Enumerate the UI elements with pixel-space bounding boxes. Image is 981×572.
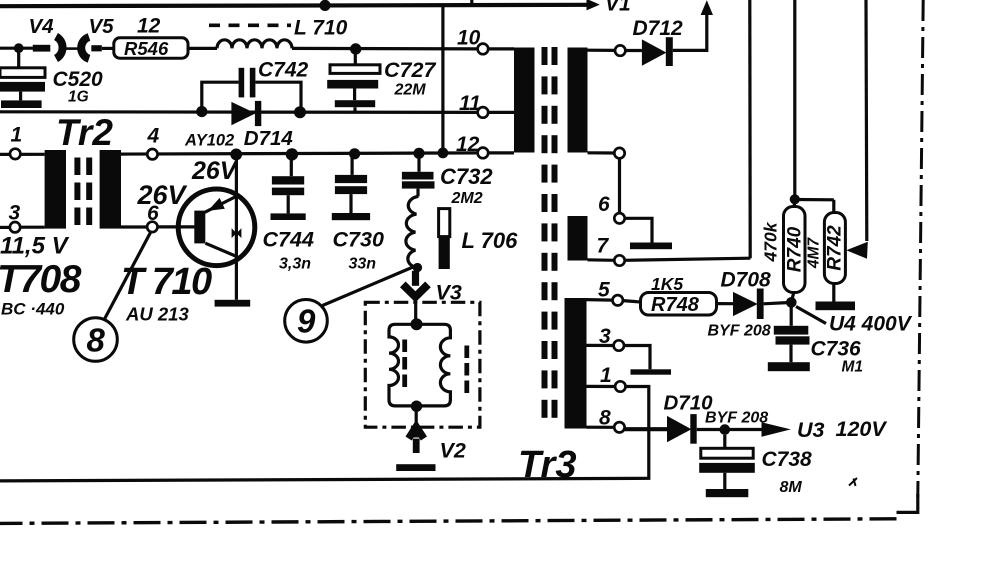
- frame dash-dot bottom border: [0, 519, 897, 524]
- svg-text:R740: R740: [785, 226, 806, 272]
- svg-text:M1: M1: [842, 359, 864, 376]
- svg-text:V5: V5: [89, 15, 115, 38]
- capacitor C732: [413, 148, 424, 159]
- node junction C742 right: [294, 106, 306, 118]
- svg-text:1G: 1G: [68, 89, 89, 106]
- frame dash-dot right border: [918, 0, 923, 497]
- wire terminals to Tr3: [488, 47, 514, 50]
- svg-text:5: 5: [598, 279, 610, 302]
- svg-text:C732: C732: [440, 164, 493, 189]
- wire top bus: [0, 5, 588, 6]
- svg-text:BYF 208: BYF 208: [705, 410, 768, 427]
- yoke dash-dot box: [365, 302, 480, 427]
- wire line y227: [0, 226, 10, 229]
- wire stub up at x=472: [470, 0, 473, 7]
- resistor R742: [832, 200, 835, 213]
- svg-text:8M: 8M: [780, 479, 803, 496]
- svg-text:11,5 V: 11,5 V: [0, 233, 70, 260]
- svg-text:9: 9: [297, 303, 316, 340]
- yoke core dashes: [402, 340, 407, 353]
- wire boost rail vertical: [748, 0, 752, 258]
- wire L710 to terminal 10: [292, 47, 478, 51]
- svg-text:AY102: AY102: [184, 132, 234, 150]
- node bottom yoke junction: [411, 401, 422, 412]
- node top yoke junction: [411, 318, 423, 330]
- transformer Tr3 secondary bottom winding: [565, 298, 587, 429]
- svg-text:C738: C738: [762, 448, 813, 471]
- transformer Tr3 core: [542, 47, 558, 418]
- terminal at top of link: [614, 148, 624, 158]
- wire return line: [0, 387, 649, 481]
- svg-text:Tr2: Tr2: [56, 112, 113, 153]
- wire 7 to boost rail: [625, 258, 751, 260]
- small print mark: [849, 478, 857, 486]
- svg-text:D714: D714: [244, 127, 294, 150]
- callout circle 8: [104, 232, 151, 321]
- wire Tr3 to D712: [588, 49, 615, 52]
- svg-text:U3: U3: [797, 418, 825, 442]
- wire Tr3 right y153: [588, 151, 615, 154]
- frame corner: [897, 494, 918, 512]
- line coil right winding: [417, 324, 451, 406]
- wire main line y112: [0, 110, 478, 114]
- ground near 6: [630, 243, 672, 250]
- svg-text:D708: D708: [721, 269, 772, 292]
- svg-text:12: 12: [456, 133, 480, 156]
- transistor T710: [178, 189, 255, 266]
- svg-text:R748: R748: [651, 294, 700, 316]
- svg-text:R546: R546: [124, 38, 169, 59]
- line coil left winding: [389, 324, 417, 406]
- svg-text:470k: 470k: [761, 221, 781, 262]
- svg-text:V1: V1: [605, 0, 631, 16]
- svg-text:V4: V4: [29, 15, 55, 38]
- node junction dot left: [14, 43, 24, 53]
- wire main line y48 left: [0, 47, 35, 50]
- capacitor C744: [286, 148, 298, 160]
- callout circle 9: [323, 267, 414, 306]
- capacitor C730: [349, 148, 360, 159]
- svg-text:C730: C730: [333, 228, 384, 252]
- wire into box: [414, 297, 417, 321]
- wire vertical x443: [441, 5, 444, 153]
- resistor R740: [793, 199, 796, 206]
- capacitor C736: [790, 306, 793, 326]
- svg-text:6: 6: [598, 193, 610, 216]
- svg-text:12: 12: [137, 15, 161, 38]
- svg-text:120V: 120V: [836, 417, 888, 441]
- node junction at collector top: [230, 149, 242, 161]
- svg-text:33n: 33n: [349, 256, 377, 273]
- svg-text:4M7: 4M7: [806, 237, 823, 270]
- inductor L710: [209, 23, 291, 27]
- wire 6 to ground: [625, 218, 652, 242]
- transformer Tr3 secondary top winding: [568, 48, 588, 153]
- svg-text:C736: C736: [811, 338, 862, 361]
- spark gap V3: [412, 271, 419, 286]
- wire boost verticals from top: [793, 0, 796, 199]
- ground under R742: [816, 302, 856, 311]
- svg-text:T708: T708: [0, 258, 82, 301]
- svg-text:3,3n: 3,3n: [279, 256, 311, 273]
- svg-text:8: 8: [87, 322, 106, 359]
- svg-text:26V: 26V: [137, 180, 188, 210]
- svg-text:4: 4: [147, 125, 160, 148]
- wire arrow feed from top: [864, 0, 868, 241]
- svg-text:1: 1: [11, 124, 23, 147]
- svg-text:L 710: L 710: [294, 17, 348, 40]
- svg-text:AU 213: AU 213: [125, 304, 189, 325]
- ground near 3: [631, 369, 672, 374]
- svg-text:T 710: T 710: [121, 261, 212, 303]
- svg-text:C744: C744: [263, 228, 314, 252]
- capacitor C738: [723, 435, 726, 449]
- svg-text:U4 400V: U4 400V: [829, 313, 913, 336]
- core of L706: [439, 209, 450, 237]
- node top bus junction: [319, 0, 330, 11]
- wire collector line vertical: [235, 155, 238, 300]
- capacitor C520: [17, 48, 20, 68]
- wire base lead: [158, 225, 195, 228]
- wire U4 leader: [796, 307, 826, 324]
- svg-text:22M: 22M: [394, 82, 427, 99]
- svg-text:V2: V2: [440, 439, 466, 463]
- wire main line y154: [0, 153, 45, 156]
- node junction x443: [438, 148, 449, 159]
- spark gap V2: [415, 406, 418, 427]
- capacitor C727: [350, 43, 361, 54]
- capacitor C742: [202, 82, 239, 109]
- svg-text:BC ·440: BC ·440: [1, 300, 65, 319]
- inductor L706: [406, 196, 419, 267]
- svg-text:2M2: 2M2: [451, 190, 483, 207]
- diode D714: [231, 102, 255, 125]
- transformer Tr3 primary winding: [514, 48, 535, 153]
- wire to R546: [102, 47, 114, 50]
- svg-text:L 706: L 706: [462, 228, 519, 253]
- wire 3 to ground: [624, 346, 650, 370]
- svg-text:C742: C742: [258, 59, 309, 82]
- node U3 arrow: [762, 422, 791, 437]
- svg-text:C727: C727: [384, 58, 436, 82]
- node U3 junction: [720, 424, 731, 435]
- ground under T710: [215, 300, 251, 307]
- svg-text:7: 7: [597, 235, 610, 258]
- svg-text:D712: D712: [633, 17, 684, 40]
- wire R546 to L710: [188, 47, 217, 50]
- transformer Tr3 secondary middle winding: [568, 216, 588, 261]
- svg-text:BYF 208: BYF 208: [708, 323, 771, 340]
- node U4 junction: [786, 297, 797, 308]
- svg-text:R742: R742: [825, 225, 846, 271]
- node junction C742 left: [196, 106, 207, 117]
- svg-text:26V: 26V: [191, 157, 239, 185]
- wire vertical link: [618, 158, 621, 213]
- svg-text:1: 1: [600, 364, 612, 387]
- ground under V2: [396, 464, 435, 471]
